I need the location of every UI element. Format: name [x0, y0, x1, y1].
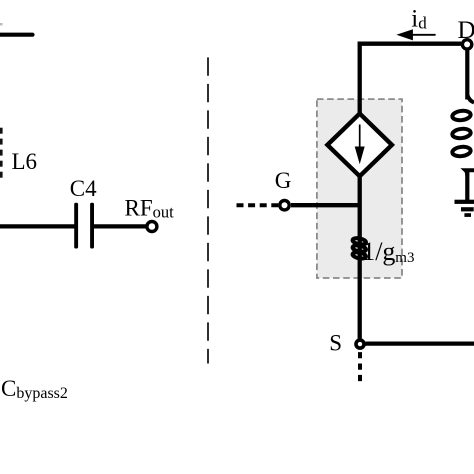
inductor L6 (cropped coil edge) [0, 128, 3, 178]
wire (S to right edge) [366, 342, 474, 346]
inductor at drain (cropped coil) [452, 95, 474, 176]
wire (G to dependent source branch) [291, 203, 362, 207]
transistor model box (shaded) [317, 99, 402, 278]
wire (D down to inductor) [465, 50, 469, 100]
current arrow id [396, 29, 435, 40]
wire (source branch vertical) [358, 174, 362, 339]
node G terminal [280, 201, 289, 210]
wire (left of C4) [0, 224, 75, 228]
svg-text:C4: C4 [70, 176, 97, 201]
dependent current source U (gm3 vgs) [327, 114, 392, 177]
wire (dotted lead left of G) [237, 203, 280, 207]
svg-text:S: S [329, 330, 342, 355]
svg-text:G: G [275, 168, 292, 193]
wire (top-left stub) [0, 33, 33, 37]
svg-text:id: id [411, 6, 427, 33]
svg-text:L6: L6 [12, 149, 38, 174]
wire (top horizontal D rail with corner) [360, 44, 461, 115]
svg-text:Cbypass2: Cbypass2 [1, 376, 68, 402]
wire (dashed partition line) [207, 57, 209, 363]
wire (inductor to ground) [465, 170, 469, 201]
node S terminal [356, 340, 364, 348]
wire (dotted below S) [358, 352, 362, 383]
node D terminal [462, 40, 471, 49]
wire (C4 to RFout) [94, 224, 146, 228]
node RFout terminal [147, 222, 157, 232]
capacitor C4 [74, 203, 94, 249]
resistor 1/gm3 [352, 237, 366, 259]
wire (cropped mark top-left) [0, 23, 3, 26]
ground [455, 200, 474, 217]
svg-text:RFout: RFout [125, 195, 175, 221]
svg-text:1/g: 1/g [362, 237, 395, 266]
svg-text:m3: m3 [395, 250, 414, 266]
